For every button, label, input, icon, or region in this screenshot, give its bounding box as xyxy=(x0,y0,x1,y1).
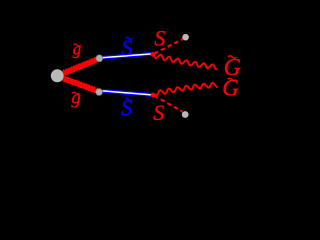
label G~ lower (red) xyxy=(222,76,239,101)
gravitino G~ upper (red wavy line) xyxy=(154,55,217,70)
endpoint dot upper (gray) xyxy=(182,34,189,41)
decay vertex upper (small gray circle) xyxy=(96,55,103,62)
label S~ upper (blue) xyxy=(121,35,132,60)
svg-text:S: S xyxy=(153,100,164,125)
interaction blob (initial vertex) xyxy=(51,69,64,82)
S scalar lower (red dashed line) xyxy=(154,96,182,112)
sgoldstino S~ upper (blue double line) xyxy=(103,54,152,58)
svg-text:G: G xyxy=(222,76,239,101)
sgoldstino S~ lower (blue double line) xyxy=(103,91,152,95)
decay vertex upper (red dot) xyxy=(151,52,156,57)
gravitino G~ lower (red wavy line) xyxy=(154,83,218,96)
label g~ lower xyxy=(71,87,81,108)
S scalar upper (red dashed line) xyxy=(154,39,183,54)
gluino g~ lower (red coil line) xyxy=(62,77,97,92)
label S~ lower (blue) xyxy=(121,95,132,120)
decay vertex lower (red dot) xyxy=(151,93,156,98)
svg-text:g: g xyxy=(71,87,81,108)
svg-text:S: S xyxy=(154,26,165,51)
gluino g~ upper (red coil line) xyxy=(63,58,96,75)
label G~ upper (red) xyxy=(224,55,241,81)
svg-text:g: g xyxy=(73,40,82,59)
label g~ upper xyxy=(73,40,82,59)
decay vertex lower (small gray circle) xyxy=(96,89,103,96)
endpoint dot lower (gray) xyxy=(182,111,189,118)
